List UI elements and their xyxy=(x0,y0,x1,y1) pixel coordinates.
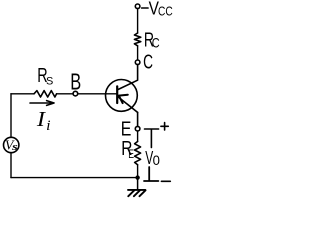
transistor Q1 xyxy=(106,80,138,113)
terminal -VCC xyxy=(135,4,140,9)
svg-text:C: C xyxy=(143,52,153,74)
wire top left xyxy=(11,93,34,95)
voltage marker bottom bar xyxy=(144,167,158,181)
wire collector xyxy=(118,65,138,90)
svg-text:CC: CC xyxy=(158,5,173,19)
label -VCC xyxy=(142,0,173,19)
resistor RS xyxy=(34,91,57,97)
wire emitter xyxy=(137,112,139,126)
minus sign xyxy=(161,180,170,182)
wire RE to rail xyxy=(137,165,139,178)
label RE xyxy=(121,138,134,161)
svg-text:s: s xyxy=(11,141,18,153)
source VS xyxy=(4,137,19,153)
svg-text:S: S xyxy=(46,75,53,87)
svg-text:B: B xyxy=(70,69,81,95)
label RS xyxy=(37,65,53,87)
wire left rail bottom xyxy=(10,153,12,178)
label V0 xyxy=(145,148,160,168)
node B xyxy=(73,91,78,96)
voltage marker top bar xyxy=(145,129,159,148)
resistor RC xyxy=(134,33,140,46)
svg-text:0: 0 xyxy=(153,152,160,168)
resistor RE xyxy=(135,142,141,165)
wire left rail top xyxy=(10,94,12,138)
wire E to RE xyxy=(137,131,139,142)
svg-text:E: E xyxy=(128,147,134,161)
label Ii xyxy=(36,107,51,134)
svg-text:i: i xyxy=(46,118,50,134)
label RC xyxy=(144,30,160,52)
current arrow Ii xyxy=(30,101,54,106)
wire VCC to RC xyxy=(137,9,139,33)
ground xyxy=(128,178,146,197)
wire RS to base xyxy=(57,93,118,95)
wire bottom rail xyxy=(11,177,138,179)
plus sign xyxy=(161,123,168,130)
node C xyxy=(135,60,140,65)
node E xyxy=(135,126,140,131)
svg-text:C: C xyxy=(152,34,160,50)
wire RC to node C xyxy=(137,46,139,60)
svg-text:I: I xyxy=(36,107,46,131)
junction xyxy=(135,175,139,179)
